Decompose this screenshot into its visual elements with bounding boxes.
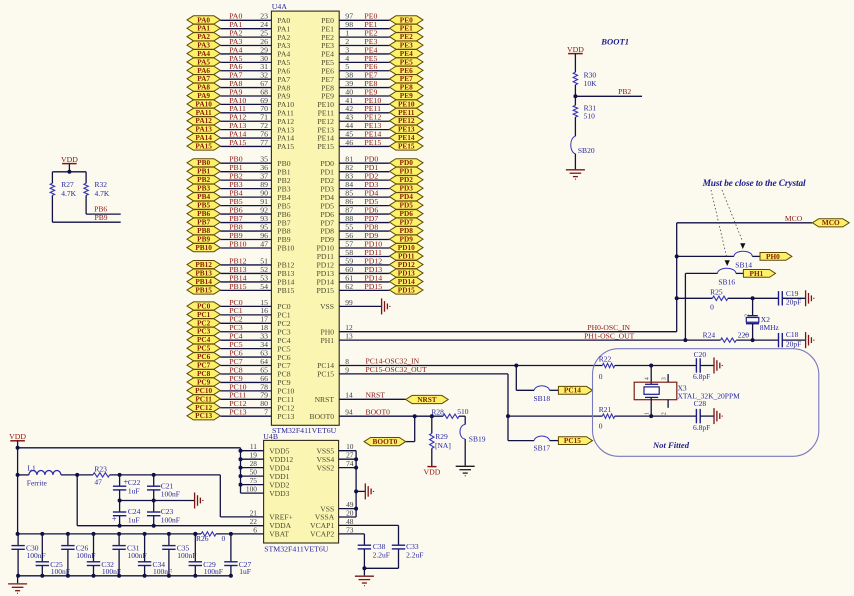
svg-text:PC13: PC13 (229, 408, 246, 417)
resistor R30 10K (573, 71, 597, 88)
svg-text:PC13: PC13 (277, 412, 294, 421)
port flag PH0 (760, 252, 792, 261)
svg-text:PE15: PE15 (398, 141, 415, 150)
wire SB16 to PH1 flag (736, 272, 744, 274)
dotted leader line to SB16 (711, 190, 730, 266)
ground below C38 (355, 568, 374, 585)
svg-text:R29: R29 (435, 432, 448, 441)
U4A left pin PA10 (pin 69): wire, port flag PA10, net label (187, 96, 294, 109)
svg-text:2.2uF: 2.2uF (406, 550, 423, 559)
capacitor C29 100nF (189, 532, 223, 578)
U4A left pin PA2 (pin 25): wire, port flag PA2, net label (187, 29, 290, 42)
U4B right pin VCAP2 (pin 73) (310, 525, 354, 538)
capacitor C23 100nF (147, 501, 180, 528)
wire drop from PC15 to R21 row and SB17 row (506, 374, 602, 441)
capacitor C32 100nF (87, 532, 121, 578)
svg-text:PH1: PH1 (320, 336, 334, 345)
capacitor C24 1uF (polarized) (112, 501, 141, 528)
svg-text:SB18: SB18 (534, 394, 551, 403)
capacitor C22 1uF (polarized) (113, 475, 141, 501)
U4A right pin PE15 (pin 46): wire, port flag PE15, net label (317, 138, 423, 151)
svg-text:94: 94 (345, 408, 353, 417)
wire R32 to PB6 net (86, 195, 121, 214)
U4A right pin PE1 (pin 98): wire, port flag PE1, net label (321, 20, 423, 33)
svg-text:100nF: 100nF (204, 567, 223, 576)
svg-text:NRST: NRST (366, 391, 386, 400)
capacitor C21 100nF (147, 475, 180, 501)
wire SB18 to PC14 flag (550, 389, 559, 391)
U4A left pin PB15 (pin 54): wire, port flag PB15, net label (187, 282, 295, 295)
U4A left pin PA1 (pin 24): wire, port flag PA1, net label (187, 20, 290, 33)
capacitor C19 20pF (779, 289, 802, 307)
U4A left pin PB2 (pin 37): wire, port flag PB2, net label (187, 172, 291, 185)
svg-text:PB15: PB15 (277, 286, 294, 295)
U4B right pin VCAP1 (pin 48) (310, 517, 354, 530)
U4A left pin PA13 (pin 72): wire, port flag PA13, net label (187, 121, 294, 134)
wire C18 to ground (782, 339, 805, 341)
svg-text:R21: R21 (599, 405, 612, 414)
U4B right pin VSS (pin 49) (320, 500, 354, 513)
svg-text:PH0: PH0 (766, 252, 780, 261)
svg-text:PB10: PB10 (229, 239, 246, 248)
svg-text:VDD: VDD (423, 468, 440, 477)
wire drop to SB18 row (516, 366, 534, 391)
VDDA rail wire (77, 475, 263, 526)
U4B left pin VDD3 (pin 100) (241, 485, 290, 498)
svg-text:7: 7 (264, 408, 268, 417)
svg-text:46: 46 (345, 138, 353, 147)
svg-text:6.8pF: 6.8pF (693, 372, 710, 381)
wire R21 to C28 with crystal tap (615, 414, 697, 418)
svg-text:62: 62 (345, 282, 353, 291)
svg-text:PC15: PC15 (317, 370, 334, 379)
svg-text:+: + (112, 513, 117, 523)
capacitor C38 2.2uF (358, 542, 390, 568)
svg-text:VSS2: VSS2 (316, 463, 334, 472)
svg-text:C19: C19 (786, 289, 799, 298)
U4A left pin PC7 (pin 64): wire, port flag PC7, net label (187, 357, 291, 370)
wire VCAP2 to C38 (339, 534, 365, 545)
svg-text:3: 3 (661, 377, 667, 380)
svg-text:SB20: SB20 (578, 146, 595, 155)
resistor R26 0 (196, 532, 226, 543)
capacitor C28 6.8pF (693, 399, 710, 432)
svg-text:0: 0 (599, 372, 603, 381)
power symbol VDD (pullups) (61, 155, 78, 164)
U4A right pin PD7 (pin 88): wire, port flag PD7, net label (320, 214, 423, 227)
U4B right pin VSS5 (pin 10) (316, 442, 353, 455)
U4A left pin PA14 (pin 76): wire, port flag PA14, net label (187, 129, 294, 142)
analog ground rail (118, 499, 195, 503)
svg-text:PD15: PD15 (398, 285, 415, 294)
svg-text:20pF: 20pF (786, 298, 801, 307)
svg-text:PB2: PB2 (618, 87, 631, 96)
wire VDD to rail (67, 164, 71, 174)
svg-text:100nF: 100nF (161, 515, 180, 524)
U4A right pin PE9 (pin 40): wire, port flag PE9, net label (321, 87, 423, 100)
svg-text:PH1-OSC_OUT: PH1-OSC_OUT (584, 331, 635, 340)
U4A right pin PE5 (pin 4): wire, port flag PE5, net label (321, 54, 423, 67)
svg-text:R28: R28 (431, 408, 444, 417)
svg-text:L1: L1 (27, 463, 36, 472)
U4A right pin PD12 (pin 59): wire, port flag PD12, net label (316, 256, 423, 269)
svg-text:Must be close to the Crystal: Must be close to the Crystal (702, 179, 806, 189)
U4A left pin PC5 (pin 34): wire, port flag PC5, net label (187, 340, 291, 353)
vertical wire VDD down left side (16, 448, 20, 534)
svg-text:4.7K: 4.7K (95, 189, 110, 198)
svg-text:BOOT0: BOOT0 (373, 437, 398, 446)
resistor R29 [NA] pulldown to VDD symbol (430, 416, 451, 466)
svg-text:74: 74 (346, 459, 354, 468)
U4A right pin PE12 (pin 43): wire, port flag PE12, net label (317, 113, 423, 126)
ground right of C18 (806, 332, 814, 348)
capacitor C31 100nF (112, 532, 146, 578)
U4A left pin PB14 (pin 53): wire, port flag PB14, net label (187, 273, 295, 286)
wire R30 to junction (573, 85, 577, 106)
svg-text:PB15: PB15 (229, 282, 246, 291)
solder bridge SB19 to ground (460, 416, 486, 466)
svg-text:PC15-OSC32_OUT: PC15-OSC32_OUT (366, 365, 428, 374)
U4A pin VSS (99) with ground (320, 298, 390, 315)
U4A right pin PD8 (pin 55): wire, port flag PD8, net label (320, 222, 423, 235)
U4A pin PC14 (8): wire net PC14-OSC32_IN (317, 357, 602, 371)
U4A right pin PD1 (pin 82): wire, port flag PD1, net label (320, 163, 423, 176)
svg-text:47: 47 (260, 239, 268, 248)
U4A left pin PA0 (pin 23): wire, port flag PA0, net label (187, 12, 290, 25)
cap bank bottom ground rail (18, 575, 231, 577)
svg-text:R25: R25 (710, 287, 723, 296)
ground at cap bank (8, 576, 27, 594)
wire PH0 row to SB14 (677, 255, 734, 257)
ground right of C20 (714, 358, 722, 374)
svg-text:9: 9 (345, 365, 349, 374)
svg-text:PD15: PD15 (364, 282, 382, 291)
U4A right pin PE10 (pin 41): wire, port flag PE10, net label (317, 96, 423, 109)
U4A left pin PB5 (pin 91): wire, port flag PB5, net label (187, 197, 291, 210)
port flag PC14 (558, 386, 592, 395)
resistor R22 0 (599, 354, 615, 381)
U4A left pin PA7 (pin 32): wire, port flag PA7, net label (187, 71, 290, 84)
U4A right pin PD2 (pin 83): wire, port flag PD2, net label (320, 172, 423, 185)
svg-text:2: 2 (745, 314, 751, 317)
U4B left pin VREF+ (pin 21) (250, 508, 293, 521)
U4A right pin PE3 (pin 2): wire, port flag PE3, net label (321, 37, 423, 50)
resistor R27 4.7K (50, 172, 76, 198)
U4A right pin PE13 (pin 44): wire, port flag PE13, net label (317, 121, 423, 134)
svg-text:1uF: 1uF (128, 486, 140, 495)
ground right of C28 (714, 408, 722, 424)
svg-text:1uF: 1uF (128, 515, 140, 524)
U4A right pin PD6 (pin 87): wire, port flag PD6, net label (320, 205, 423, 218)
svg-text:PA15: PA15 (195, 141, 212, 150)
U4A pin NRST (14): wire and NRST flag (315, 391, 449, 405)
resistor R24 220 (703, 331, 750, 343)
U4A left pin PB8 (pin 95): wire, port flag PB8, net label (187, 222, 291, 235)
svg-text:NRST: NRST (315, 395, 335, 404)
U4A right pin PE4 (pin 3): wire, port flag PE4, net label (321, 45, 423, 58)
svg-text:99: 99 (345, 298, 353, 307)
svg-text:PA15: PA15 (229, 138, 246, 147)
power symbol VDD (BOOT1 divider) (567, 45, 584, 54)
capacitor C35 100nF (162, 532, 196, 578)
U4A left pin PC8 (pin 65): wire, port flag PC8, net label (187, 365, 291, 378)
U4A left pin PA4 (pin 29): wire, port flag PA4, net label (187, 45, 290, 58)
U4A right pin PD0 (pin 81): wire, port flag PD0, net label (320, 155, 423, 168)
U4B left pin VDD5 (pin 11) (241, 442, 290, 455)
wire PH1 row to SB16 (685, 272, 717, 274)
U4A left pin PC12 (pin 80): wire, port flag PC12, net label (187, 399, 295, 412)
svg-text:13: 13 (345, 332, 353, 341)
svg-text:SB19: SB19 (469, 434, 486, 443)
ground right of C19 (806, 290, 814, 306)
IC body U4B (STM32F411VET6U power pins) (263, 432, 338, 554)
capacitor C30 100nF (11, 534, 45, 578)
U4A pin PH1 (13): wire net PH1-OSC_OUT (320, 331, 685, 345)
U4A left pin PC9 (pin 66): wire, port flag PC9, net label (187, 374, 291, 387)
U4A left pin PA3 (pin 26): wire, port flag PA3, net label (187, 37, 290, 50)
svg-text:0: 0 (222, 534, 226, 543)
U4A right pin PD4 (pin 85): wire, port flag PD4, net label (320, 189, 423, 202)
solder bridge SB18 (534, 386, 551, 403)
svg-text:U4B: U4B (263, 432, 278, 441)
U4A left pin PA11 (pin 70): wire, port flag PA11, net label (187, 104, 294, 117)
svg-text:0: 0 (710, 302, 714, 311)
pullup rail wire (52, 171, 86, 173)
svg-text:PB15: PB15 (195, 285, 212, 294)
wire PH1-OSC_OUT row right portion with R24 (685, 338, 778, 342)
capacitor C25 100nF (36, 532, 70, 578)
IC U4A STM32F411VET6U (main GPIO part) (271, 2, 339, 435)
crystal X2 8MHz (745, 298, 780, 340)
U4A left pin PC1 (pin 16): wire, port flag PC1, net label (187, 306, 291, 319)
U4A left pin PB13 (pin 52): wire, port flag PB13, net label (187, 265, 295, 278)
note text: Must be close to the Crystal (702, 179, 806, 189)
svg-text:8MHz: 8MHz (760, 323, 780, 332)
U4A left pin PB12 (pin 51): wire, port flag PB12, net label (187, 256, 295, 269)
U4A left pin PA12 (pin 71): wire, port flag PA12, net label (187, 113, 294, 126)
U4A left pin PC3 (pin 18): wire, port flag PC3, net label (187, 323, 291, 336)
svg-text:BOOT1: BOOT1 (600, 37, 629, 47)
U4A left pin PA6 (pin 31): wire, port flag PA6, net label (187, 62, 290, 75)
wire SB20 to ground (574, 154, 576, 170)
ground below SB19 (456, 466, 475, 475)
VDD bus vertical to U4B VDD pins (239, 448, 243, 493)
port flag PH1 (743, 269, 775, 278)
U4A right pin PE11 (pin 42): wire, port flag PE11, net label (318, 104, 423, 117)
resistor R31 510 (573, 104, 596, 121)
U4A left pin PB6 (pin 92): wire, port flag PB6, net label (187, 205, 291, 218)
U4A left pin PB7 (pin 93): wire, port flag PB7, net label (187, 214, 291, 227)
U4A right pin PD11 (pin 58): wire, port flag PD11, net label (317, 248, 423, 261)
U4A left pin PC4 (pin 33): wire, port flag PC4, net label (187, 332, 291, 345)
U4B right pin VSSA (pin 20) (315, 508, 354, 521)
dotted leader line to SB14 (722, 190, 745, 249)
svg-text:Not Fitted: Not Fitted (652, 440, 690, 450)
svg-text:PC13: PC13 (195, 411, 212, 420)
U4B right pin VSS2 (pin 74) (316, 459, 353, 472)
svg-text:100nF: 100nF (102, 567, 121, 576)
U4B left pin VDD1 (pin 50) (241, 468, 290, 481)
svg-text:VBAT: VBAT (269, 530, 289, 539)
svg-text:0: 0 (599, 422, 603, 431)
U4A right pin PE7 (pin 38): wire, port flag PE7, net label (321, 71, 423, 84)
U4A right pin PE0 (pin 97): wire, port flag PE0, net label (321, 12, 423, 25)
svg-text:100nF: 100nF (161, 489, 180, 498)
U4A left pin PC11 (pin 79): wire, port flag PC11, net label (187, 391, 294, 404)
U4A pin BOOT0 (94): wire, net label BOOT0 (310, 407, 443, 421)
U4A left pin PB4 (pin 90): wire, port flag PB4, net label (187, 189, 291, 202)
svg-text:C28: C28 (694, 399, 707, 408)
svg-text:510: 510 (457, 407, 469, 416)
VDD symbol (inverted) below R29 (423, 467, 440, 477)
wire C28 to ground (700, 415, 713, 417)
svg-text:VDD: VDD (9, 432, 26, 441)
svg-text:100nF: 100nF (153, 567, 172, 576)
svg-text:BOOT0: BOOT0 (366, 407, 391, 416)
svg-text:PC15: PC15 (564, 436, 581, 445)
wire R31 to SB20 (574, 117, 576, 136)
svg-text:STM32F411VET6U: STM32F411VET6U (264, 545, 329, 554)
svg-text:10K: 10K (584, 79, 598, 88)
U4B left pin VBAT (pin 6) (253, 525, 289, 538)
U4A right pin PD10 (pin 57): wire, port flag PD10, net label (316, 239, 423, 252)
U4A left pin PB1 (pin 36): wire, port flag PB1, net label (187, 163, 291, 176)
U4A left pin PA5 (pin 30): wire, port flag PA5, net label (187, 54, 290, 67)
power symbol VDD (main rail) (9, 432, 26, 441)
svg-text:MCO: MCO (785, 214, 803, 223)
svg-text:VDD: VDD (61, 155, 78, 164)
wire R23 to VREF+ corner (110, 473, 264, 517)
svg-text:STM32F411VET6U: STM32F411VET6U (272, 426, 337, 435)
svg-text:Ferrite: Ferrite (27, 479, 48, 488)
U4B left pin VDD2 (pin 75) (241, 476, 290, 489)
svg-text:1: 1 (645, 412, 651, 415)
capacitor C34 100nF (138, 532, 172, 578)
port flag PC15 (558, 436, 592, 445)
svg-text:PA15: PA15 (277, 142, 294, 151)
svg-text:PB10: PB10 (277, 244, 294, 253)
U4A right pin PD3 (pin 84): wire, port flag PD3, net label (320, 180, 423, 193)
svg-text:14: 14 (345, 391, 353, 400)
title BOOT1 (600, 37, 629, 47)
U4A left pin PC6 (pin 63): wire, port flag PC6, net label (187, 348, 291, 361)
svg-text:R27: R27 (61, 180, 74, 189)
wire VCAP1 to C33 (339, 525, 399, 545)
svg-text:C18: C18 (786, 330, 799, 339)
U4A left pin PA9 (pin 68): wire, port flag PA9, net label (187, 87, 290, 100)
svg-text:47: 47 (94, 477, 102, 486)
svg-text:4: 4 (645, 377, 651, 380)
wire MCO row and MCO net label (677, 214, 813, 223)
U4A pin PH0 (12): wire net PH0-OSC_IN (320, 323, 676, 337)
svg-text:MCO: MCO (822, 218, 840, 227)
svg-text:VSS: VSS (320, 302, 334, 311)
U4A right pin PE14 (pin 45): wire, port flag PE14, net label (317, 129, 423, 142)
U4A right pin PD9 (pin 56): wire, port flag PD9, net label (320, 231, 423, 244)
svg-text:VDD: VDD (567, 45, 584, 54)
port flag MCO (812, 218, 849, 227)
U4A left pin PA15 (pin 77): wire, port flag PA15, net label (187, 138, 294, 151)
BOOT0 port flag and drop wire (364, 416, 415, 446)
U4A right pin PD14 (pin 61): wire, port flag PD14, net label (316, 273, 423, 286)
VBAT rail with R26 (16, 532, 264, 536)
svg-text:100nF: 100nF (51, 567, 70, 576)
U4B VSS bus and stubs (339, 451, 359, 517)
wire PB2 net (575, 87, 642, 96)
svg-text:PB9: PB9 (95, 213, 108, 222)
svg-text:R23: R23 (94, 465, 107, 474)
capacitor C18 20pF (779, 330, 802, 348)
resistor R23 47 (93, 465, 110, 487)
svg-text:PH1: PH1 (750, 269, 764, 278)
capacitor C27 1uF (224, 534, 251, 578)
svg-text:PC14: PC14 (564, 386, 581, 395)
svg-text:U4A: U4A (272, 2, 288, 11)
svg-text:[NA]: [NA] (435, 441, 451, 450)
U4A right pin PD5 (pin 86): wire, port flag PD5, net label (320, 197, 423, 210)
U4A left pin PC0 (pin 15): wire, port flag PC0, net label (187, 298, 291, 311)
crystal X3 XTAL_32K_20PPM (634, 366, 740, 417)
svg-text:PE15: PE15 (364, 138, 381, 147)
svg-text:1uF: 1uF (239, 567, 251, 576)
svg-text:PD15: PD15 (316, 286, 334, 295)
capacitor C33 2.2uF (392, 542, 424, 568)
U4A left pin PC13 (pin 7): wire, port flag PC13, net label (187, 408, 295, 421)
svg-text:100nF: 100nF (177, 551, 196, 560)
U4A right pin PD15 (pin 62): wire, port flag PD15, net label (316, 282, 423, 295)
svg-text:100nF: 100nF (128, 551, 147, 560)
U4A left pin PB9 (pin 96): wire, port flag PB9, net label (187, 231, 291, 244)
svg-text:6.8pF: 6.8pF (693, 423, 710, 432)
U4B left pin VDD4 (pin 28) (241, 459, 290, 472)
U4B left pin VDDA (pin 22) (250, 517, 292, 530)
svg-text:4.7K: 4.7K (61, 189, 76, 198)
svg-text:VCAP2: VCAP2 (310, 530, 334, 539)
svg-text:R32: R32 (95, 180, 108, 189)
svg-text:2.2uF: 2.2uF (373, 550, 390, 559)
svg-text:SB17: SB17 (534, 443, 551, 452)
resistor R25 0 row wire (677, 296, 779, 300)
wire SB17 row (508, 440, 534, 442)
wire SB14 to PH0 flag (752, 255, 760, 257)
ground on analog rail (195, 493, 203, 509)
ground tap on VSS bus (356, 483, 373, 499)
svg-text:BOOT0: BOOT0 (310, 412, 335, 421)
svg-text:100: 100 (246, 485, 257, 494)
solder bridge SB20 (571, 136, 595, 155)
wire SB17 to PC15 flag (550, 440, 559, 442)
svg-text:73: 73 (346, 525, 354, 534)
svg-text:PE15: PE15 (317, 142, 334, 151)
wire C20 to ground (700, 365, 713, 367)
inductor L1 Ferrite (18, 463, 61, 487)
svg-text:510: 510 (584, 112, 596, 121)
resistor R25 zigzag (710, 287, 728, 311)
svg-text:R26: R26 (196, 534, 209, 543)
svg-text:100nF: 100nF (76, 551, 95, 560)
svg-text:54: 54 (260, 282, 268, 291)
solder bridge SB16 (718, 268, 736, 286)
svg-text:PB10: PB10 (195, 243, 212, 252)
capacitor C20 6.8pF (693, 350, 710, 381)
wire R22 to C20 with crystal tap (615, 364, 697, 368)
svg-text:VDD3: VDD3 (269, 489, 289, 498)
text Not Fitted (652, 440, 690, 450)
U4A right pin PE2 (pin 1): wire, port flag PE2, net label (321, 29, 423, 42)
ground below SB20 (566, 170, 585, 179)
svg-text:2: 2 (661, 412, 667, 415)
vertical wire PH1/SB16 drop (683, 273, 687, 342)
